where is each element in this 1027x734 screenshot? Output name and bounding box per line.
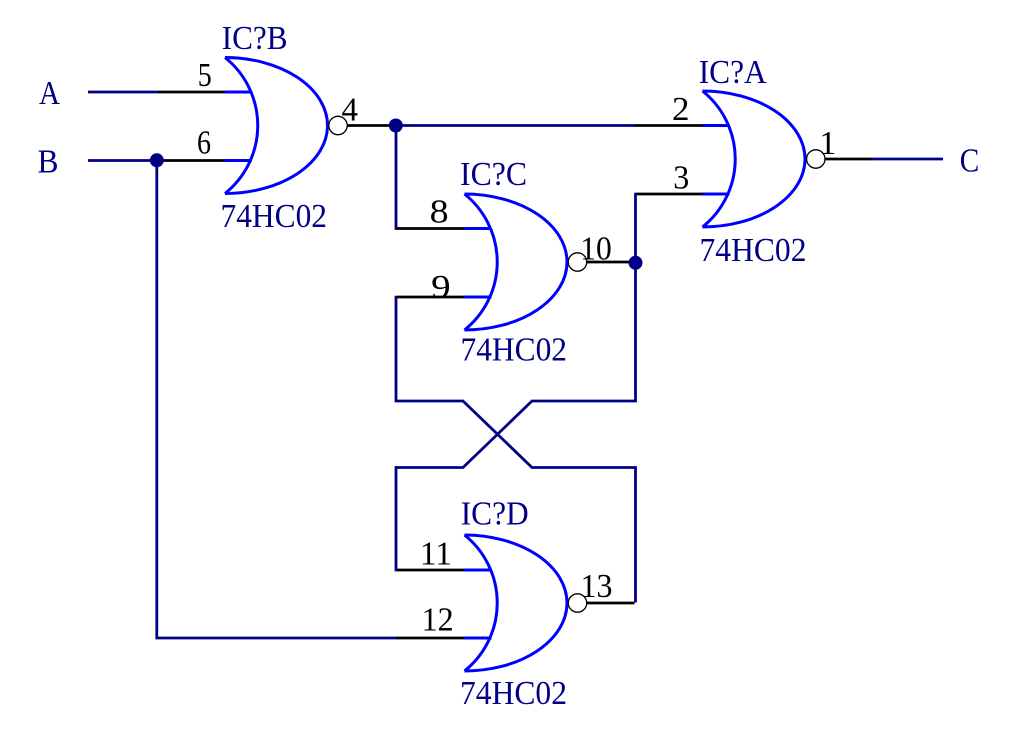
pin 10 [587,261,634,264]
svg-text:3: 3 [673,159,689,196]
svg-text:IC?C: IC?C [460,156,527,193]
svg-text:1: 1 [819,125,836,162]
junction dot node 10 [629,256,643,270]
svg-text:11: 11 [420,536,452,573]
wire B to pin6 [88,159,157,162]
svg-text:IC?A: IC?A [699,54,767,91]
pin 2 [636,124,703,127]
wire net13: pin9 corner down through cross to pin13 [396,296,636,603]
pin 4 [347,124,394,127]
output bubble IC?D [568,594,586,612]
NOR gate IC?B body [225,58,328,194]
output bubble IC?A [807,150,825,168]
pin 5 [158,91,225,94]
wire B vertical down to pin12 [157,161,398,639]
svg-text:C: C [960,143,980,180]
NOR gate IC?D body [465,535,568,671]
junction dot node 4 [389,119,403,133]
svg-text:4: 4 [342,91,359,128]
svg-text:IC?D: IC?D [461,496,529,533]
junction dot node B [150,153,164,167]
svg-text:A: A [39,75,60,112]
svg-text:9: 9 [431,269,451,306]
svg-text:74HC02: 74HC02 [461,332,568,369]
NOR gate IC?A body [703,91,806,227]
output bubble IC?B [329,116,347,134]
svg-text:13: 13 [581,568,613,605]
pin 9 [397,296,465,299]
svg-text:6: 6 [197,125,211,162]
svg-text:5: 5 [198,57,212,94]
svg-text:12: 12 [422,602,454,639]
svg-text:8: 8 [430,194,449,231]
wire net10: pin3 corner down through cross to pin11 [396,193,636,570]
wire net4 horizontal to pin2 [394,124,637,127]
svg-text:2: 2 [672,91,690,128]
pin 12 [397,637,465,640]
pin 8 [397,227,465,230]
pin 3 [636,193,703,196]
pin 6 [158,159,225,162]
NOR gate IC?C body [465,194,568,330]
pin 1 [825,158,872,161]
svg-text:74HC02: 74HC02 [221,198,328,235]
output bubble IC?C [568,253,586,271]
pin 11 [397,569,465,572]
svg-text:74HC02: 74HC02 [700,232,807,269]
wire A to pin5 [88,91,158,94]
svg-text:74HC02: 74HC02 [460,675,567,712]
svg-text:10: 10 [580,230,612,267]
pin 13 [587,602,635,605]
wire net4 vertical to pin8 [396,125,398,229]
wire output1 to C [871,158,943,161]
svg-text:IC?B: IC?B [222,20,288,57]
svg-text:B: B [38,144,59,181]
